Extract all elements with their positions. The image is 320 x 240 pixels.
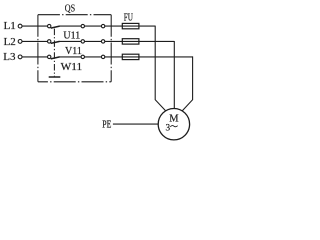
node pole2 b	[101, 40, 104, 43]
switch QS pole 1 blade	[51, 26, 60, 28]
fuse FU2 body wire	[122, 40, 139, 42]
fuse FU2	[122, 39, 139, 44]
switch QS enclosure earth bar	[49, 76, 61, 78]
svg-text:L2: L2	[4, 37, 16, 48]
node pole1 a	[81, 24, 84, 27]
svg-text:W11: W11	[61, 62, 83, 73]
fuse FU3 body wire	[122, 56, 139, 58]
switch QS pole 3 blade	[51, 57, 60, 59]
wire pole1 mid2	[85, 25, 102, 27]
wire W11 to FU3	[105, 56, 123, 58]
node pole1 b	[101, 24, 104, 27]
wire phase1 drop	[155, 26, 166, 111]
terminal L1	[18, 24, 22, 28]
motor tilde	[170, 126, 177, 127]
motor M circle	[158, 109, 189, 140]
wire FU1 to bend	[139, 25, 155, 27]
terminal L3	[18, 55, 22, 59]
wire FU3 to bend	[139, 56, 193, 58]
wire L3 lead	[22, 56, 48, 58]
node pole3 a	[81, 55, 84, 58]
wire pole3 mid2	[85, 56, 102, 58]
wire V11 to FU2	[105, 40, 123, 42]
wire pole1 mid	[59, 25, 81, 27]
wire phase2 drop	[173, 41, 175, 109]
wire PE	[113, 123, 158, 125]
wire phase3 drop	[182, 56, 192, 111]
fuse FU3	[122, 54, 139, 59]
switch QS enclosure (dash-dot box)	[38, 15, 111, 82]
wire pole3 mid	[59, 56, 81, 58]
svg-text:PE: PE	[102, 120, 111, 131]
switch QS pole 2 blade	[51, 41, 60, 43]
svg-text:FU: FU	[124, 13, 134, 24]
svg-text:V11: V11	[65, 46, 82, 57]
node pole3 b	[101, 55, 104, 58]
terminal L2	[18, 40, 22, 44]
svg-text:L1: L1	[4, 21, 16, 32]
wire L2 lead	[22, 40, 48, 42]
wire pole2 mid2	[85, 40, 102, 42]
switch QS pole 1 contact	[48, 24, 51, 27]
wire L1 lead	[22, 25, 48, 27]
svg-text:QS: QS	[65, 4, 75, 15]
svg-text:L3: L3	[3, 52, 15, 63]
svg-text:U11: U11	[63, 30, 80, 41]
svg-text:M: M	[169, 114, 179, 125]
fuse FU1	[122, 23, 139, 28]
node pole2 a	[81, 40, 84, 43]
wire pole2 mid	[59, 40, 81, 42]
wire U11 to FU1	[105, 25, 123, 27]
switch QS linkage (dash-dot)	[53, 29, 55, 77]
fuse FU1 body wire	[122, 25, 139, 27]
switch QS pole 2 contact	[48, 40, 51, 43]
wire FU2 to bend	[139, 40, 174, 42]
switch QS pole 3 contact	[48, 55, 51, 58]
svg-text:3: 3	[166, 122, 171, 132]
